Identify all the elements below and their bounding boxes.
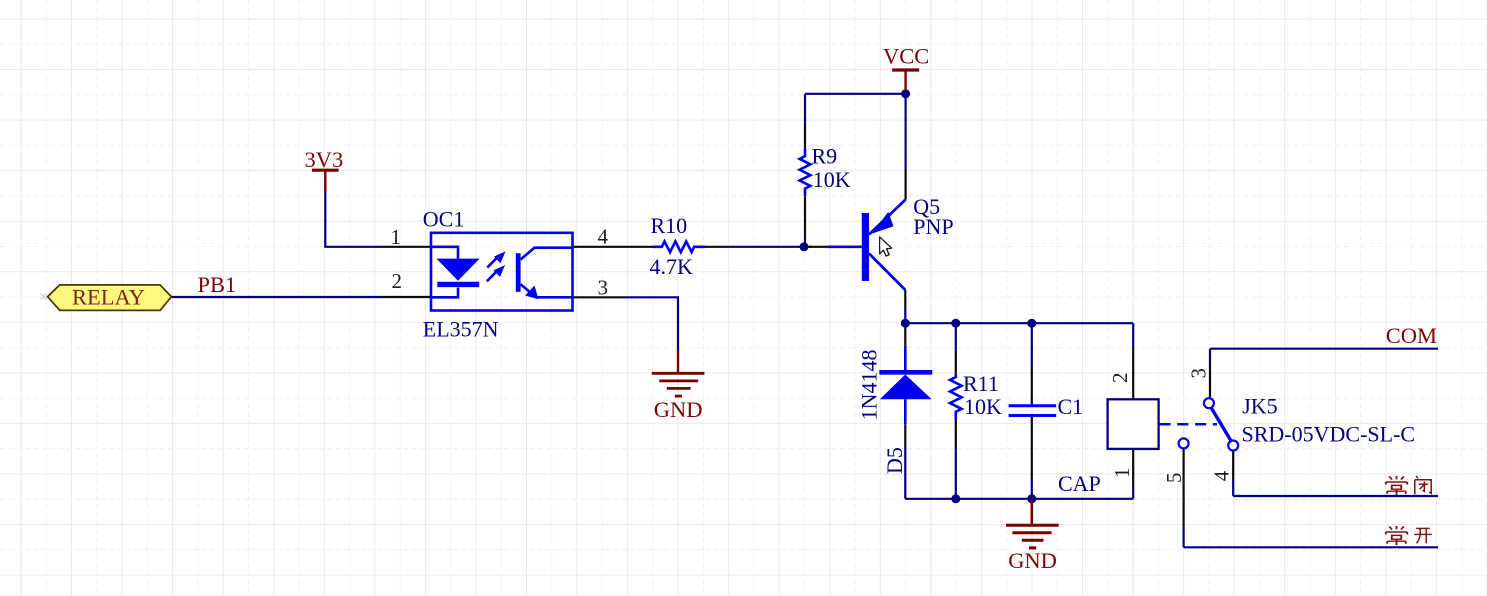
svg-text:R11: R11 (963, 371, 999, 396)
svg-text:JK5: JK5 (1242, 394, 1277, 419)
svg-text:VCC: VCC (883, 44, 929, 69)
svg-text:1: 1 (391, 225, 402, 249)
svg-text:4: 4 (598, 225, 609, 249)
svg-text:2: 2 (1108, 373, 1132, 384)
svg-text:GND: GND (654, 397, 703, 422)
svg-text:C1: C1 (1058, 394, 1084, 419)
svg-text:3V3: 3V3 (305, 147, 344, 172)
svg-text:1N4148: 1N4148 (857, 350, 882, 421)
svg-text:SRD-05VDC-SL-C: SRD-05VDC-SL-C (1242, 422, 1416, 447)
svg-text:R9: R9 (812, 144, 838, 169)
svg-text:GND: GND (1008, 548, 1057, 573)
svg-text:5: 5 (1162, 473, 1186, 484)
svg-text:3: 3 (1187, 368, 1211, 379)
svg-text:EL357N: EL357N (423, 316, 499, 341)
svg-text:10K: 10K (813, 167, 851, 192)
svg-text:10K: 10K (964, 394, 1002, 419)
svg-text:1: 1 (1110, 468, 1134, 479)
svg-text:OC1: OC1 (423, 207, 465, 232)
svg-text:PNP: PNP (913, 214, 953, 239)
svg-text:RELAY: RELAY (72, 285, 145, 310)
svg-text:R10: R10 (651, 213, 688, 238)
svg-text:CAP: CAP (1058, 471, 1101, 496)
svg-text:3: 3 (598, 276, 609, 300)
svg-text:COM: COM (1386, 323, 1437, 348)
svg-text:4: 4 (1210, 470, 1234, 481)
svg-text:2: 2 (392, 269, 403, 293)
svg-text:D5: D5 (882, 447, 907, 474)
svg-text:PB1: PB1 (198, 272, 237, 297)
svg-text:4.7K: 4.7K (650, 254, 694, 279)
